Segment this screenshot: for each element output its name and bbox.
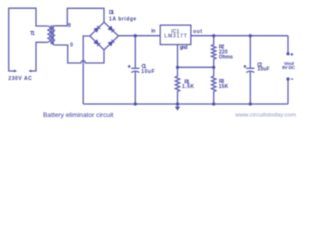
svg-text:10uF: 10uF	[257, 67, 269, 73]
svg-text:out: out	[193, 29, 202, 35]
svg-text:D1: D1	[109, 10, 114, 16]
svg-text:Ohms: Ohms	[219, 54, 233, 60]
svg-text:www.circuitstoday.com: www.circuitstoday.com	[235, 113, 296, 119]
svg-text:LM317T: LM317T	[164, 34, 187, 40]
svg-text:0: 0	[70, 42, 73, 48]
svg-text:9V DC: 9V DC	[282, 65, 295, 70]
svg-text:9: 9	[68, 23, 71, 29]
svg-text:T1: T1	[30, 31, 35, 37]
svg-text:Battery eliminator circuit: Battery eliminator circuit	[43, 113, 114, 119]
svg-text:1A bridge: 1A bridge	[109, 17, 136, 23]
svg-text:15K: 15K	[219, 84, 229, 90]
svg-text:in: in	[151, 29, 155, 35]
svg-text:gnd: gnd	[180, 45, 188, 51]
svg-text:1.5K: 1.5K	[182, 84, 194, 90]
svg-text:230V AC: 230V AC	[8, 76, 32, 82]
svg-text:10uF: 10uF	[141, 69, 154, 75]
